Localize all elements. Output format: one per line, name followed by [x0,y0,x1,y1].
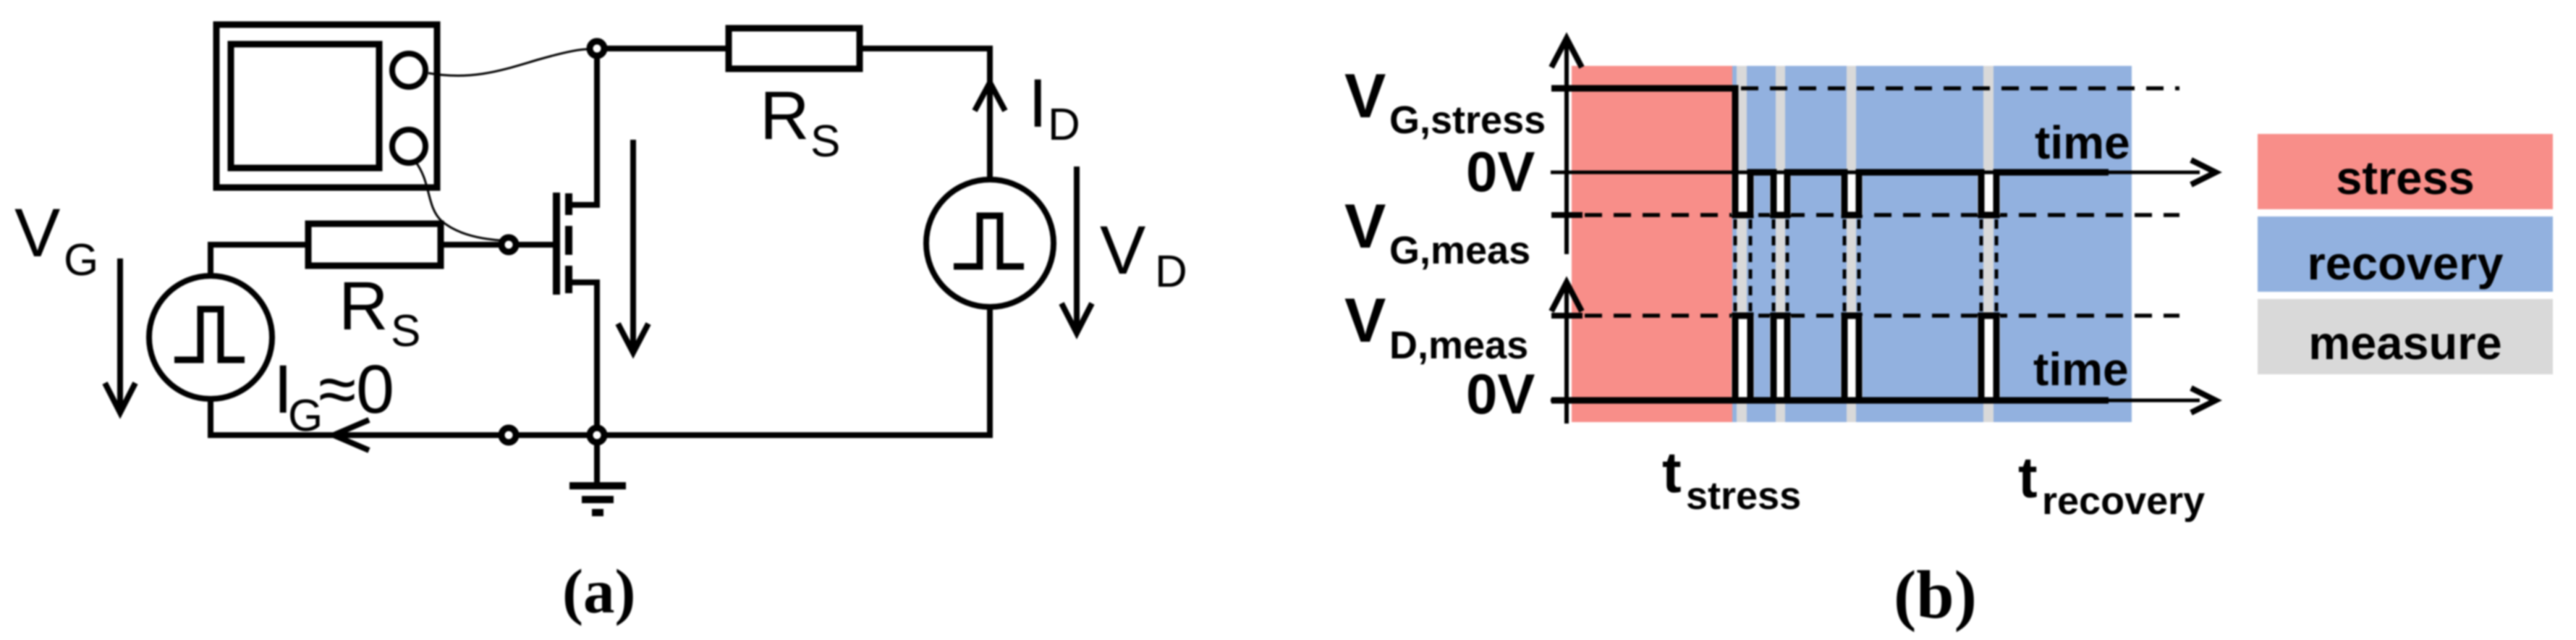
label VG,stress [1344,62,1546,142]
label t stress [1662,440,1801,518]
oscilloscope BNC connector 1 [392,54,425,87]
VG waveform [1551,88,2109,215]
svg-text:0V: 0V [1466,362,1535,426]
svg-text:V: V [1100,212,1145,289]
oscilloscope screen [231,44,379,168]
recovery region (blue) [1732,66,2132,422]
legend recovery swatch [2258,216,2553,292]
pulse source VD circle [926,180,1054,307]
transistor Q1 source terminal [569,282,597,425]
svg-text:time: time [2033,343,2129,395]
wire VG bottom to ground rail [211,399,499,435]
ground stub [594,445,600,486]
resistor RS2 (drain series) [729,28,860,69]
svg-text:recovery: recovery [2042,479,2205,523]
measure pulse window 4 top (white) [1978,174,2000,215]
svg-text:V: V [14,195,60,271]
node gate (open) [501,237,516,252]
transistor Q1 gate bar [553,193,560,295]
svg-text:time: time [2035,117,2130,169]
VD pulse outlines [1735,316,1996,400]
svg-text:t: t [1662,440,1682,505]
measure pulse window 4 bottom (white) [1978,316,2000,397]
measure strip 4 (grey) [1983,66,1994,422]
measure pulse window 3 top (white) [1841,174,1863,215]
arrowhead ID current (up) [975,83,1005,111]
wire VG source to RS1 [211,245,308,276]
label t recovery [2018,445,2205,523]
measure pulse window 2 top (white) [1770,174,1791,215]
svg-text:V: V [1344,62,1386,131]
pulse symbol inside VD [954,216,1024,266]
dashed level VD,meas [1585,313,2179,318]
ground bar 1 [569,482,626,489]
wire RS2 to VD source [860,49,990,180]
label VD,meas [1344,286,1528,367]
wire VD bottom to ground rail [607,307,990,435]
label ID [1028,65,1080,150]
measure strip 2 (grey) [1776,66,1785,422]
svg-text:D: D [1155,247,1187,297]
arrowhead IG current (left) [334,420,369,450]
node drain (open) [590,41,604,56]
svg-text:V: V [1344,286,1386,355]
arrowhead time axis 2 [2191,388,2216,413]
arrowhead VD [1062,303,1092,333]
resistor RS1 (gate series) [308,224,441,266]
arrow VG voltage (down) [117,258,123,409]
tick VD,meas [1551,313,1583,319]
svg-text:D,meas: D,meas [1389,324,1528,367]
label VG,meas [1344,192,1530,272]
svg-text:stress: stress [1686,474,1801,518]
dashed level VG,meas [1585,213,2179,217]
svg-text:stress: stress [2336,151,2475,204]
svg-text:V: V [1344,192,1386,261]
arrowhead VG [105,383,135,413]
svg-text:≈0: ≈0 [318,351,394,428]
svg-text:measure: measure [2308,316,2501,369]
oscilloscope BNC connector 2 [392,130,425,163]
svg-text:G: G [288,391,323,441]
node source terminal (open) [501,428,516,442]
transistor Q1 drain terminal [569,59,597,205]
measure strip 3 (grey) [1847,66,1856,422]
probe wire from BNC2 to gate node [415,161,501,240]
svg-text:t: t [2018,445,2038,510]
svg-text:G: G [64,235,98,285]
svg-text:D: D [1048,100,1080,150]
svg-text:(a): (a) [562,556,635,626]
measure pulse window 1 top (white) [1732,174,1754,215]
stress region (pink) [1572,66,1732,422]
measure strip 1 (grey) [1737,66,1747,422]
arrowhead axis 1 [1551,38,1582,67]
transistor Q1 channel dashes [565,193,572,293]
svg-text:R: R [760,77,810,154]
wire between bottom nodes [519,432,587,438]
svg-text:G,meas: G,meas [1389,229,1530,272]
svg-text:0V: 0V [1466,140,1535,203]
ground bar 3 [592,509,603,516]
channel current arrow (down) [630,140,636,348]
svg-text:G,stress: G,stress [1389,98,1546,142]
dashed vertical connectors at measure pulses [1735,219,1996,311]
arrowhead channel current [618,324,648,353]
measure pulse window 2 bottom (white) [1770,316,1791,397]
wire RS1 to gate node [441,242,499,248]
arrowhead time axis 1 [2191,160,2216,185]
time axis 1 (0V top) [1551,171,2200,174]
voltage axis 2 (VD) [1564,284,1569,424]
wire drain node to resistor RS2 [607,46,729,51]
pulse source VG circle [149,276,272,399]
measure pulse window 3 bottom (white) [1841,316,1863,397]
svg-text:(b): (b) [1894,557,1977,633]
wire gate node to gate bar [519,242,556,248]
dashed level VG,stress [1741,86,2179,90]
svg-text:recovery: recovery [2307,237,2503,290]
label VG [14,195,98,285]
measure pulse window 1 bottom (white) [1732,316,1754,397]
label IG approx 0 [274,351,394,441]
arrow VD voltage (down) [1074,167,1080,329]
svg-text:S: S [391,306,420,356]
voltage axis 1 (VG) [1564,40,1569,254]
oscilloscope body [216,25,437,188]
arrowhead axis 2 [1551,282,1582,311]
legend measure swatch [2258,299,2553,374]
node ground junction (open) [590,428,604,442]
tick VG,stress [1551,85,1583,91]
svg-text:S: S [810,117,840,167]
label RS1 value [339,268,420,356]
VD waveform [1551,397,2109,404]
ground bar 2 [582,496,614,503]
legend stress swatch [2258,134,2553,209]
label RS2 value [760,77,840,167]
label VD [1100,212,1187,297]
svg-text:I: I [1028,65,1047,142]
svg-text:R: R [339,268,389,345]
tick VG,meas [1551,212,1583,218]
probe wire from BNC1 to drain node [428,49,588,76]
pulse symbol inside VG [174,309,245,360]
time axis 2 (0V bottom) [1551,399,2200,403]
